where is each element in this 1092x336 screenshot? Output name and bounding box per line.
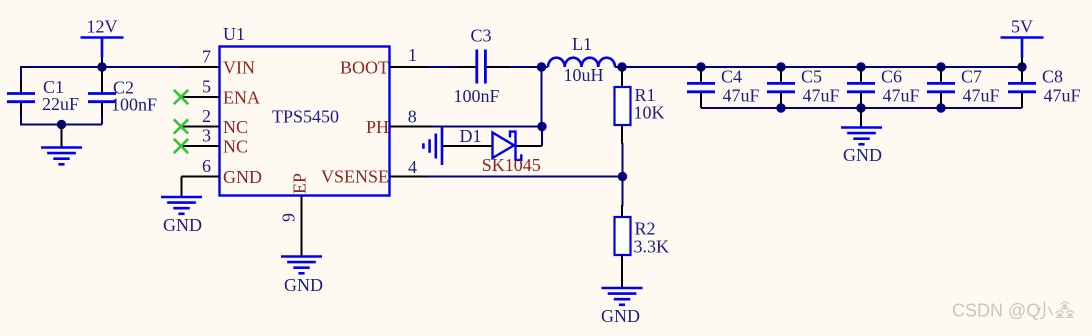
svg-text:5: 5 — [202, 77, 211, 97]
svg-text:NC: NC — [223, 137, 248, 157]
svg-text:C6: C6 — [881, 67, 902, 87]
svg-text:10uH: 10uH — [564, 65, 604, 85]
svg-text:GND: GND — [843, 145, 882, 165]
svg-text:GND: GND — [223, 167, 262, 187]
svg-text:SK1045: SK1045 — [482, 155, 541, 175]
svg-text:VIN: VIN — [223, 58, 255, 78]
svg-text:GND: GND — [284, 275, 323, 295]
svg-text:12V: 12V — [87, 17, 118, 37]
svg-text:22uF: 22uF — [42, 94, 79, 114]
svg-text:C4: C4 — [721, 67, 742, 87]
svg-text:C3: C3 — [471, 26, 492, 46]
svg-text:GND: GND — [601, 306, 640, 326]
svg-text:GND: GND — [163, 215, 202, 235]
svg-text:8: 8 — [408, 107, 417, 127]
svg-text:TPS5450: TPS5450 — [272, 107, 339, 127]
svg-text:PH: PH — [366, 117, 389, 137]
svg-text:9: 9 — [279, 213, 299, 222]
svg-text:CSDN @Q: CSDN @Q — [952, 301, 1040, 321]
svg-text:U1: U1 — [223, 24, 245, 44]
svg-text:6: 6 — [202, 156, 211, 176]
svg-text:7: 7 — [202, 47, 211, 67]
svg-text:L1: L1 — [572, 34, 592, 54]
svg-text:BOOT: BOOT — [340, 58, 389, 78]
svg-text:D1: D1 — [460, 126, 482, 146]
svg-text:47uF: 47uF — [1044, 86, 1081, 106]
svg-text:47uF: 47uF — [883, 86, 920, 106]
svg-text:100nF: 100nF — [454, 86, 500, 106]
svg-text:10K: 10K — [634, 103, 665, 123]
svg-text:3: 3 — [202, 126, 211, 146]
svg-text:47uF: 47uF — [723, 86, 760, 106]
svg-text:100nF: 100nF — [111, 95, 157, 115]
svg-text:47uF: 47uF — [963, 86, 1000, 106]
svg-text:R2: R2 — [635, 219, 656, 239]
svg-text:3.3K: 3.3K — [634, 237, 670, 257]
svg-text:ENA: ENA — [223, 88, 260, 108]
svg-text:NC: NC — [223, 117, 248, 137]
svg-text:EP: EP — [290, 173, 310, 194]
svg-text:4: 4 — [408, 157, 417, 177]
svg-text:C5: C5 — [801, 67, 822, 87]
svg-text:VSENSE: VSENSE — [321, 167, 389, 187]
svg-text:C7: C7 — [961, 67, 982, 87]
svg-text:2: 2 — [202, 106, 211, 126]
svg-text:1: 1 — [408, 45, 417, 65]
svg-text:5V: 5V — [1011, 17, 1033, 37]
svg-text:C8: C8 — [1042, 67, 1063, 87]
svg-text:47uF: 47uF — [803, 86, 840, 106]
